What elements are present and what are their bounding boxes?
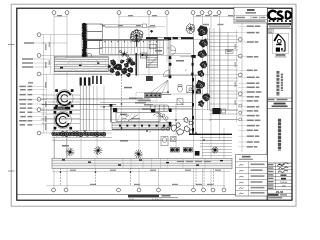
project name vertical text [278, 71, 282, 96]
DESIGN letterforms [269, 20, 291, 22]
column blocks center [113, 55, 194, 112]
fan palm A [126, 58, 133, 64]
south retaining edge [160, 134, 232, 140]
plants south of building [171, 118, 194, 136]
room labels [62, 50, 184, 147]
second left dim chain [50, 35, 52, 74]
left dimension chain [43, 35, 45, 133]
pipe scribbles under bed [121, 115, 138, 122]
east spine wall [192, 55, 196, 134]
wc lower suite [161, 137, 176, 146]
svg-text:JS-02: JS-02 [276, 190, 284, 194]
bottom sheet title [17, 195, 267, 201]
roof eave lines [100, 24, 156, 27]
windmill plant upper [120, 51, 129, 58]
right grid bubbles [238, 38, 242, 96]
plant mass right of deck [110, 60, 135, 77]
svg-text:2008.06: 2008.06 [280, 182, 288, 184]
drawing number cell [268, 190, 287, 199]
tree at entry [186, 24, 195, 34]
right dim chain [236, 30, 238, 122]
left grid bubble ticks [36, 32, 41, 136]
revision table top right [234, 7, 267, 23]
inner sheet frame [17, 8, 292, 200]
lower dim line [52, 171, 230, 173]
round planter upper [55, 89, 73, 107]
lower deck boards [52, 158, 232, 168]
top grid bubble ticks [51, 10, 244, 15]
round spa lower [54, 111, 73, 130]
row labels column [268, 164, 273, 189]
dark planter box east [212, 108, 225, 114]
roof grid dots [105, 41, 158, 42]
south annotation text row [177, 161, 211, 162]
upper deck band [54, 57, 112, 84]
lower dim texts [70, 170, 221, 171]
double door arcs [163, 46, 176, 77]
leader fan [150, 80, 168, 93]
west court wall [110, 104, 113, 122]
bottom grid bubbles [52, 188, 226, 192]
bathroom fixtures [177, 85, 194, 105]
star shrubs [108, 65, 117, 70]
svg-text:SCALE 1:50: SCALE 1:50 [152, 198, 162, 201]
pipe nodes [60, 74, 205, 173]
signature scribbles [278, 163, 289, 187]
entry wall west [169, 39, 172, 78]
dashed pipe drops [61, 62, 214, 186]
terrace steps east [209, 28, 238, 120]
tree top [130, 30, 143, 47]
horizontal grid lines [40, 35, 239, 133]
fan palms south [66, 146, 219, 158]
left grid bubbles [37, 33, 41, 135]
lavatory counter row [144, 93, 171, 98]
court verticals [55, 138, 98, 158]
extra column lines [94, 86, 105, 131]
fold mark left [8, 45, 15, 172]
logo black bar [268, 23, 291, 27]
small right bubbles [239, 104, 242, 121]
roof joist grid [100, 40, 164, 54]
level tag box [226, 49, 234, 53]
ramp with hatch [116, 113, 160, 122]
client row [267, 98, 292, 101]
interior stair [146, 38, 157, 68]
west wing wall lines [42, 95, 151, 123]
title block left divider [266, 8, 268, 200]
left label single top [24, 42, 46, 44]
house logo caption [275, 54, 286, 57]
small pavilion block [141, 53, 148, 58]
svg-text:PLAN: PLAN [129, 198, 135, 201]
path wall lines [208, 28, 210, 110]
pergola top edge band [87, 37, 172, 40]
ceiling dashed box [136, 93, 157, 101]
entry dim labels [203, 24, 224, 25]
tree row east [196, 26, 210, 107]
hedge garland west [51, 131, 112, 138]
legend table bottom right [236, 155, 268, 196]
bottom grid bubble ticks [51, 187, 227, 192]
drawing name vertical text [278, 119, 281, 151]
top grid bubbles [52, 11, 244, 15]
project title cell [267, 103, 292, 109]
small wc circles [161, 127, 171, 130]
lower terrace steps east [200, 138, 232, 156]
signature table [267, 163, 292, 199]
registration stamp box [268, 30, 274, 34]
divider under logo [267, 28, 292, 30]
center wall lines [100, 54, 200, 109]
planter hedge column [82, 23, 92, 58]
center pipe label cluster [133, 98, 153, 106]
planting strip mid [112, 122, 171, 130]
planter boxes south [170, 148, 199, 156]
house logo box [272, 33, 288, 53]
sofa row [151, 105, 169, 111]
black beam with sign [54, 107, 70, 110]
misc leader dots [150, 48, 211, 133]
dark wall left of stair [136, 53, 138, 76]
right annotation column [238, 25, 261, 147]
outer sheet border [11, 4, 296, 206]
left elevation labels [19, 82, 47, 125]
west colonnade posts [80, 77, 91, 131]
terrace upper edge [52, 139, 160, 141]
west promenade edge [42, 104, 117, 106]
planter stack top-left [87, 24, 103, 48]
leader spine left [46, 74, 48, 133]
bottom dimension chain [46, 185, 225, 187]
terrace extra steps [209, 36, 238, 104]
interior walls east wing [180, 39, 196, 58]
scribble planting sw [153, 113, 171, 125]
fireplace block [146, 76, 153, 81]
left labels upper pair [22, 58, 52, 68]
fan palm A [126, 57, 133, 64]
top dimension chain [54, 17, 242, 27]
north wall with openings [146, 37, 194, 39]
right grid bubble ticks [238, 37, 243, 97]
vertical grid lines [54, 15, 242, 189]
pipe node top [150, 30, 153, 33]
CSD logo text [269, 11, 291, 20]
